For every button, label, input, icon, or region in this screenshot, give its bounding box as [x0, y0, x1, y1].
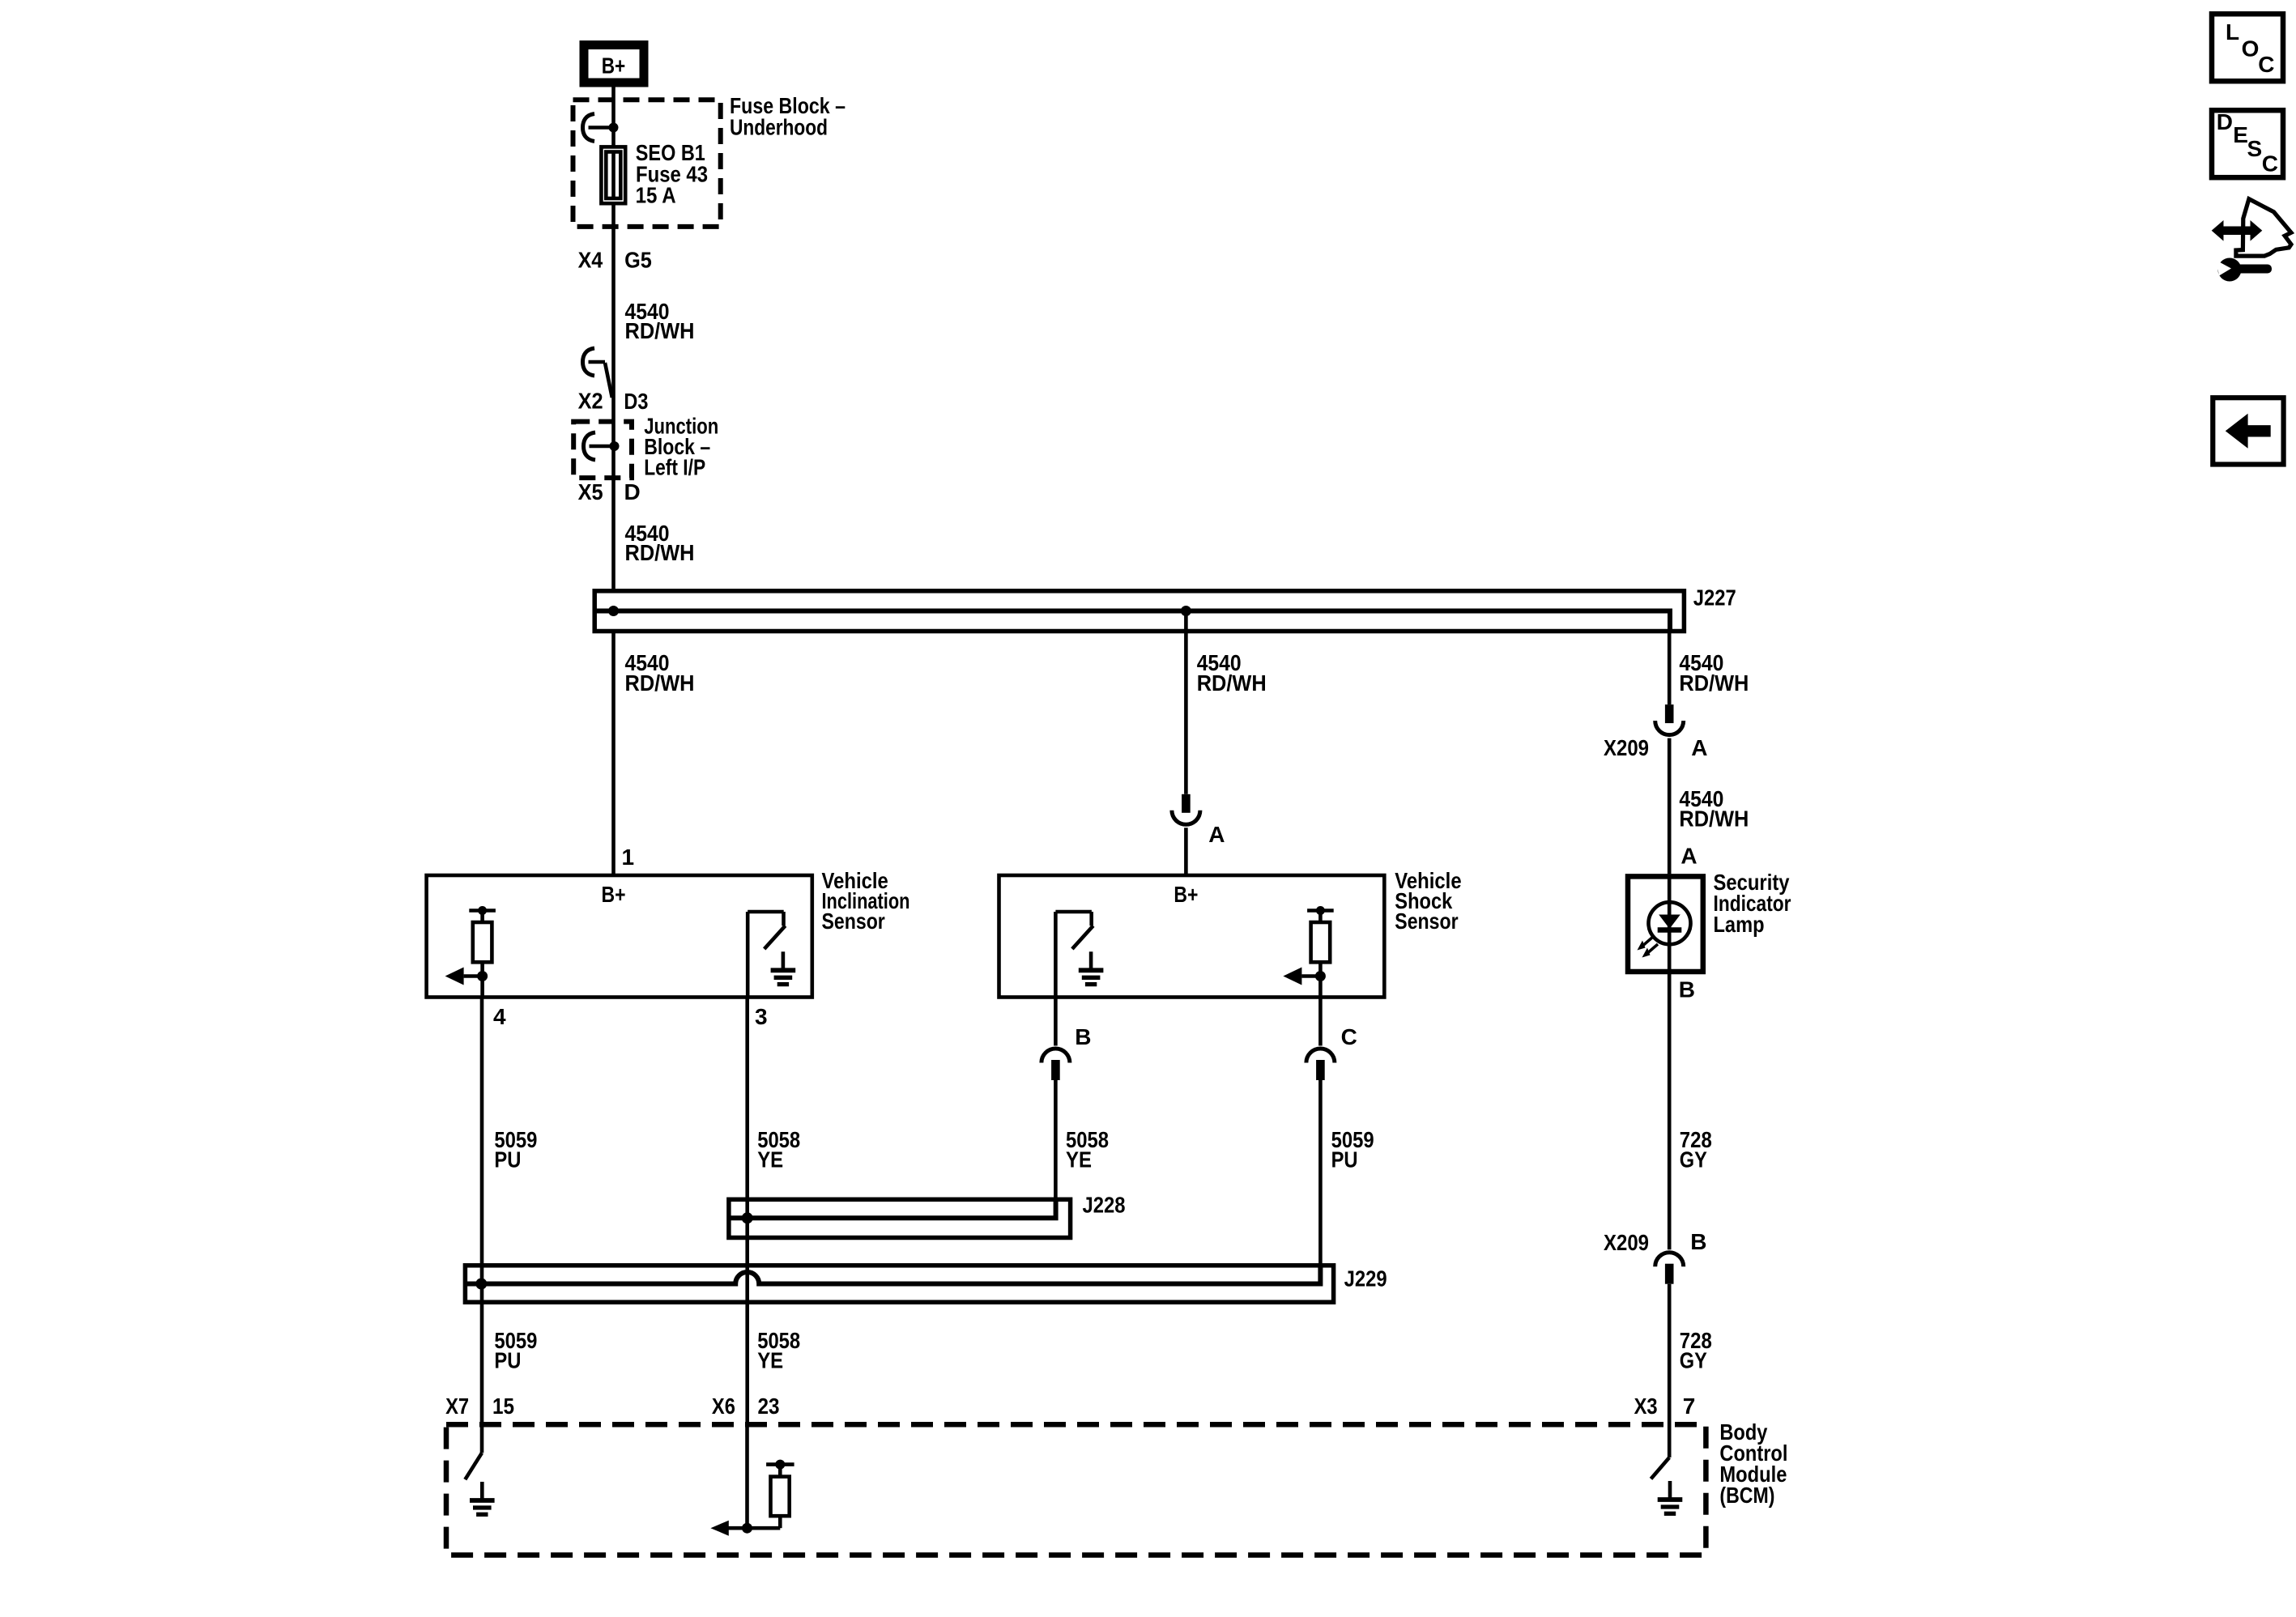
svg-text:D: D: [624, 479, 641, 504]
svg-text:E: E: [2233, 122, 2248, 147]
svg-text:RD/WH: RD/WH: [1197, 670, 1267, 696]
fuse block input terminal clip: [583, 114, 595, 142]
svg-text:O: O: [2242, 36, 2260, 62]
LOC icon box: [2212, 14, 2283, 81]
svg-text:X7: X7: [445, 1394, 469, 1419]
wire shock sensor pin B with inline connector B: [1054, 998, 1058, 1046]
svg-text:A: A: [1691, 735, 1707, 760]
svg-text:Underhood: Underhood: [730, 114, 828, 139]
wire X209 B to BCM X3 7: [1668, 1284, 1672, 1425]
connector X209 A: [1665, 704, 1674, 723]
svg-text:A: A: [1680, 844, 1697, 869]
svg-text:D: D: [2217, 109, 2233, 134]
shock sensor internal switch to ground: [1054, 912, 1058, 998]
svg-text:X6: X6: [712, 1394, 735, 1419]
svg-text:J228: J228: [1083, 1193, 1126, 1218]
wire inclination pin 4 5059 PU down through J229 to BCM: [480, 998, 484, 1426]
diagram navigation icon with double arrow and wrench: [2236, 199, 2291, 256]
wire B+ to fuse block: [611, 87, 616, 128]
svg-text:GY: GY: [1680, 1348, 1707, 1373]
svg-text:4: 4: [493, 1004, 506, 1029]
wire shock sensor pin C with inline connector C: [1318, 998, 1323, 1046]
svg-text:15: 15: [492, 1394, 514, 1419]
vehicle inclination sensor box: [427, 875, 812, 998]
svg-text:7: 7: [1683, 1394, 1696, 1419]
LED symbol in lamp: [1668, 874, 1672, 974]
J229 internal line with hop over 5058 wire: [466, 1265, 1320, 1284]
node J229 junction: [475, 1279, 487, 1290]
svg-text:YE: YE: [757, 1348, 783, 1373]
svg-text:X2: X2: [578, 389, 603, 414]
svg-text:PU: PU: [1331, 1147, 1358, 1172]
back arrow icon box: [2213, 398, 2283, 464]
svg-text:C: C: [1341, 1024, 1357, 1049]
svg-text:X209: X209: [1604, 735, 1649, 760]
svg-text:J229: J229: [1344, 1266, 1387, 1291]
security indicator lamp box: [1628, 876, 1703, 972]
svg-text:23: 23: [758, 1394, 780, 1419]
svg-text:G5: G5: [624, 248, 652, 273]
svg-text:X5: X5: [578, 479, 603, 504]
BCM X6 23 internal resistor and signal arrow: [745, 1425, 749, 1528]
svg-text:PU: PU: [494, 1348, 521, 1373]
inline connector A shock sensor: [1182, 794, 1191, 813]
svg-text:RD/WH: RD/WH: [1679, 806, 1749, 832]
svg-text:15 A: 15 A: [636, 182, 676, 207]
wire X209 A to lamp: [1668, 738, 1672, 874]
inclination sensor internal switch to ground: [746, 912, 750, 998]
node J227 middle junction: [1181, 606, 1191, 616]
svg-text:S: S: [2247, 136, 2263, 161]
svg-text:C: C: [2258, 52, 2274, 77]
svg-text:X3: X3: [1634, 1394, 1658, 1419]
splice pack J227: [594, 591, 1684, 632]
svg-text:RD/WH: RD/WH: [625, 540, 695, 565]
svg-text:B: B: [1075, 1024, 1091, 1049]
svg-text:Sensor: Sensor: [822, 908, 885, 934]
wrench part of navigation icon: [2218, 258, 2242, 282]
svg-text:(BCM): (BCM): [1719, 1483, 1774, 1508]
svg-text:B+: B+: [1174, 882, 1198, 907]
svg-text:YE: YE: [1066, 1147, 1092, 1172]
BCM X3 7 internal switch to ground: [1668, 1425, 1672, 1457]
svg-text:Left I/P: Left I/P: [644, 454, 705, 479]
svg-text:YE: YE: [757, 1147, 783, 1172]
wire J227 to shock sensor drop: [1184, 611, 1188, 794]
inclination sensor internal resistor with output arrow: [469, 908, 496, 913]
svg-text:X209: X209: [1604, 1230, 1649, 1255]
wire lamp to X209 B: [1668, 974, 1672, 1249]
svg-text:A: A: [1208, 822, 1225, 847]
fuse SEO B1 Fuse 43 15 A: [601, 147, 625, 203]
splice pack J229: [465, 1266, 1333, 1302]
BCM X7 15 internal switch to ground: [480, 1425, 484, 1453]
shock sensor internal resistor with output arrow: [1307, 908, 1334, 913]
wire J227 right branch to X209 A: [1668, 633, 1672, 704]
svg-text:Sensor: Sensor: [1395, 908, 1458, 934]
svg-text:GY: GY: [1680, 1147, 1707, 1172]
svg-text:RD/WH: RD/WH: [1679, 670, 1749, 696]
fuse block underhood dashed box: [573, 100, 721, 227]
wire terminal to fuse: [611, 128, 616, 148]
battery feed B+ box: [584, 45, 644, 83]
svg-text:B: B: [1690, 1229, 1706, 1254]
svg-text:RD/WH: RD/WH: [625, 670, 695, 696]
svg-text:3: 3: [755, 1004, 768, 1029]
node J228 junction: [742, 1212, 753, 1223]
svg-text:C: C: [2262, 151, 2278, 176]
junction block left I/P dashed box: [573, 422, 632, 479]
wire fuse to X4 G5: [611, 203, 616, 589]
svg-text:J227: J227: [1693, 585, 1736, 611]
svg-text:B+: B+: [602, 53, 626, 79]
svg-text:RD/WH: RD/WH: [625, 318, 695, 343]
connector X209 B: [1655, 1253, 1684, 1266]
svg-text:Lamp: Lamp: [1714, 912, 1765, 937]
svg-text:D3: D3: [624, 389, 648, 414]
svg-text:1: 1: [622, 845, 635, 870]
wire J227 to inclination sensor pin 1: [611, 631, 616, 875]
node J227 left junction: [608, 606, 619, 616]
splice pack J228: [729, 1199, 1071, 1237]
DESC icon box: [2212, 110, 2283, 177]
junction block terminal clip X5: [584, 432, 596, 460]
wire inclination pin 3 5058 YE down through J228 J229 to BCM: [745, 998, 749, 1426]
body control module BCM dashed box: [446, 1424, 1706, 1555]
svg-text:X4: X4: [578, 248, 603, 273]
vehicle shock sensor box: [999, 875, 1385, 998]
connector X2 D3 clip: [583, 348, 595, 376]
svg-text:B: B: [1679, 977, 1695, 1002]
svg-text:PU: PU: [494, 1147, 521, 1172]
svg-text:B+: B+: [602, 882, 626, 907]
svg-text:L: L: [2226, 19, 2239, 45]
